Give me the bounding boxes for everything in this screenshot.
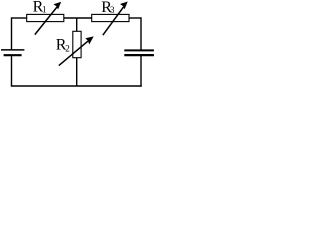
svg-text:2: 2 (65, 43, 70, 53)
svg-text:3: 3 (110, 5, 115, 15)
svg-text:1: 1 (42, 5, 47, 15)
